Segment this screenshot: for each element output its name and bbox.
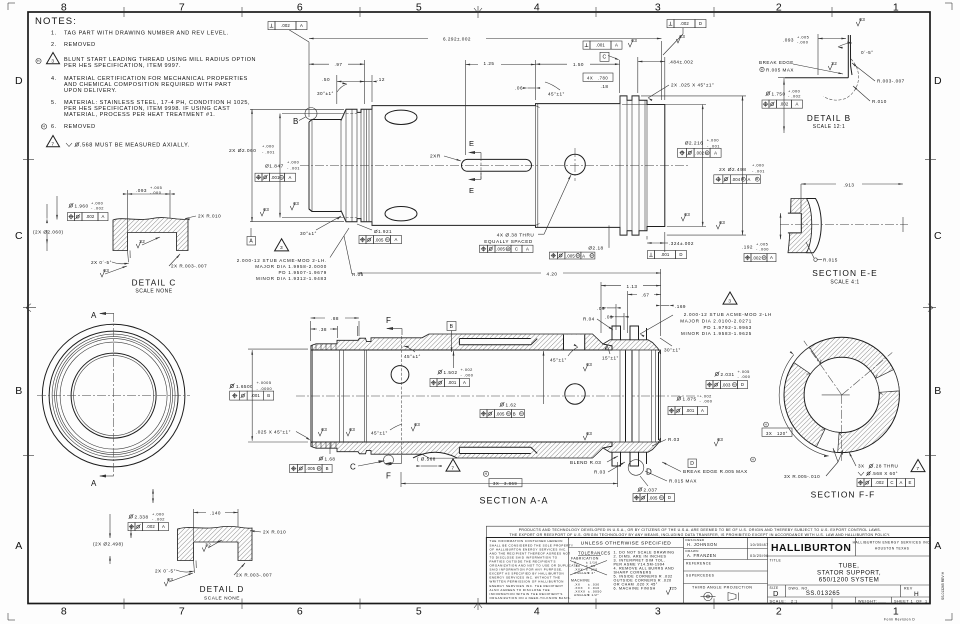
svg-text:.005: .005	[566, 253, 575, 258]
svg-text:STATOR SUPPORT,: STATOR SUPPORT,	[817, 570, 881, 577]
svg-text:.06: .06	[515, 86, 523, 91]
dim .97	[364, 60, 366, 104]
svg-text:.780: .780	[598, 76, 608, 81]
fcf perp .002 D top right	[667, 20, 674, 28]
svg-text:.568 X 60°: .568 X 60°	[872, 471, 899, 476]
svg-text:1.62: 1.62	[506, 403, 517, 408]
section A-A bottom wall hatched	[311, 442, 612, 458]
dim .50	[336, 75, 338, 104]
svg-text:2: 2	[776, 606, 782, 618]
svg-text:.002: .002	[680, 21, 689, 26]
dim dia 1.68	[319, 456, 324, 461]
svg-text:C: C	[890, 480, 893, 485]
triangle 3 section	[723, 292, 737, 304]
svg-text:B: B	[15, 385, 23, 397]
svg-text:.12: .12	[377, 77, 385, 82]
detail B finish 32	[828, 63, 833, 71]
svg-text:A: A	[463, 380, 466, 385]
zone center marks	[474, 6, 482, 18]
dim .06	[528, 87, 536, 89]
section F-F hole wedges	[876, 370, 900, 393]
detail D vertical dims	[152, 489, 154, 503]
section F-F hatched ring	[784, 337, 899, 452]
svg-text:H: H	[485, 472, 488, 476]
size and drawing number row	[785, 585, 787, 597]
svg-text:+.000: +.000	[287, 160, 300, 165]
svg-text:32: 32	[139, 239, 145, 244]
svg-text:63: 63	[684, 212, 690, 217]
section A-A cut line	[113, 313, 115, 477]
svg-text:2.031: 2.031	[721, 372, 735, 377]
svg-text:SCALE 12:1: SCALE 12:1	[813, 124, 846, 130]
svg-text:H. JOHNSON: H. JOHNSON	[687, 542, 717, 547]
front view concentric circles	[42, 324, 185, 467]
svg-text:R.03: R.03	[668, 437, 680, 442]
svg-text:SECTION A-A: SECTION A-A	[479, 496, 548, 506]
section A-A right groove slot	[626, 351, 633, 442]
top view outline	[309, 96, 665, 235]
finish 63 section right	[583, 364, 588, 372]
dim dia 1.6500	[230, 384, 235, 389]
svg-text:TAG PART WITH DRAWING NUMBER A: TAG PART WITH DRAWING NUMBER AND REV LEV…	[64, 31, 229, 37]
svg-text:- .001: - .001	[287, 166, 300, 171]
svg-text:+.000: +.000	[262, 144, 275, 149]
detail C balloon on section	[384, 455, 394, 465]
svg-text:.484±.002: .484±.002	[669, 59, 694, 64]
svg-text:30°±1°: 30°±1°	[664, 348, 681, 353]
svg-text:R.015 MAX: R.015 MAX	[669, 479, 697, 484]
svg-text:1.: 1.	[51, 31, 57, 37]
svg-text:4X Ø.38 THRU: 4X Ø.38 THRU	[497, 232, 535, 237]
svg-text:7: 7	[179, 606, 185, 618]
svg-text:.192: .192	[742, 245, 753, 250]
svg-text:2.: 2.	[51, 42, 57, 48]
svg-text:SS.013265 REV H: SS.013265 REV H	[941, 571, 945, 600]
dim .38	[337, 326, 339, 338]
svg-text:Ø1.921: Ø1.921	[374, 229, 392, 234]
dim 6.292 overall	[308, 42, 310, 117]
dim 1.13	[601, 285, 661, 287]
svg-text:63: 63	[103, 268, 109, 273]
svg-text:+.000: +.000	[707, 138, 720, 143]
svg-text:(2X Ø2.498): (2X Ø2.498)	[93, 542, 124, 547]
top view groove/ring verticals right	[619, 96, 621, 235]
svg-text:HOUSTON TEXAS: HOUSTON TEXAS	[875, 547, 910, 551]
svg-text:D: D	[690, 461, 694, 467]
section A-A cross hole upper	[391, 366, 409, 384]
datum B flag top	[447, 322, 456, 331]
section E-E hatched body	[788, 199, 812, 253]
svg-text:3X: 3X	[766, 431, 772, 436]
svg-text:10/05/87: 10/05/87	[750, 543, 769, 547]
svg-text:UNLESS OTHERWISE SPECIFIED: UNLESS OTHERWISE SPECIFIED	[581, 541, 672, 547]
note 6	[41, 124, 46, 129]
svg-text:125: 125	[669, 586, 677, 590]
svg-text:A: A	[526, 246, 529, 251]
svg-text:C: C	[934, 230, 942, 242]
svg-text:MINOR DIA 1.9583-1.9625: MINOR DIA 1.9583-1.9625	[681, 331, 752, 336]
svg-text:8: 8	[61, 606, 67, 618]
svg-text:2X R.010: 2X R.010	[263, 530, 286, 535]
detail C finish 32	[136, 241, 141, 249]
svg-text:D: D	[773, 589, 779, 598]
svg-text:MATERIAL, PROCESS PER HEAT TRE: MATERIAL, PROCESS PER HEAT TREATMENT #1.	[64, 112, 215, 118]
svg-text:3: 3	[280, 245, 283, 251]
svg-text:F: F	[386, 316, 391, 325]
triangle 7 F-F	[911, 460, 925, 472]
section A-A centerline	[296, 395, 700, 397]
svg-text:HALLIBURTON ENERGY SERVICES IN: HALLIBURTON ENERGY SERVICES INC.	[853, 541, 932, 545]
svg-text:.005: .005	[649, 495, 658, 500]
svg-text:.005: .005	[375, 237, 384, 242]
front view centerlines	[37, 395, 190, 397]
svg-text:WEIGHT:: WEIGHT:	[858, 599, 877, 603]
svg-text:.169: .169	[675, 304, 686, 309]
svg-text:1.875: 1.875	[683, 397, 697, 402]
svg-text:A: A	[15, 540, 23, 552]
svg-text:63: 63	[349, 427, 355, 432]
title block legal band	[486, 526, 930, 537]
dim .324	[647, 242, 665, 244]
section A-A top wall port window	[564, 335, 585, 350]
dim 1.50	[536, 63, 620, 65]
svg-text:1: 1	[893, 2, 899, 14]
svg-text:R.010: R.010	[872, 99, 887, 104]
svg-text:BREAK EDGE R.005 MAX: BREAK EDGE R.005 MAX	[683, 469, 748, 474]
svg-text:ORGANIZATION ON A NEED-TO-KNOW: ORGANIZATION ON A NEED-TO-KNOW BASIS.	[490, 596, 572, 600]
svg-text:5.: 5.	[51, 100, 57, 106]
svg-text:.003: .003	[722, 382, 731, 387]
svg-text:.001: .001	[596, 43, 605, 48]
detail C dim dia 1.960	[69, 203, 74, 208]
finish 63 bottom right	[583, 433, 588, 441]
svg-text:M: M	[318, 467, 321, 471]
svg-text:A: A	[796, 102, 799, 107]
svg-text:H: H	[765, 423, 768, 427]
svg-text:M: M	[590, 254, 593, 258]
svg-text:1.68: 1.68	[325, 457, 336, 462]
svg-text:2X 0´-5°: 2X 0´-5°	[91, 260, 112, 265]
svg-text:( Ø.568: ( Ø.568	[417, 457, 436, 462]
svg-text:PER HES SPECIFICATION, ITEM 99: PER HES SPECIFICATION, ITEM 9997.	[64, 63, 181, 69]
top view ring lines left	[366, 109, 368, 221]
svg-text:.913: .913	[844, 182, 855, 187]
svg-text:THIRD ANGLE PROJECTION: THIRD ANGLE PROJECTION	[692, 586, 752, 590]
datum A flag	[247, 237, 256, 246]
svg-text:A: A	[900, 480, 903, 485]
svg-text:M: M	[576, 254, 579, 258]
section E-E keyway notch	[788, 213, 801, 233]
section A-A internal step lines	[339, 350, 341, 442]
svg-text:4: 4	[534, 606, 540, 618]
svg-text:63: 63	[679, 34, 685, 39]
svg-text:- .000: - .000	[700, 399, 713, 404]
svg-text:.093: .093	[783, 38, 794, 43]
svg-text:THE EXPORT OR REEXPORT OF U.S.: THE EXPORT OR REEXPORT OF U.S. ORIGIN TE…	[509, 533, 890, 537]
svg-text:2X .025 X 45°±1°: 2X .025 X 45°±1°	[671, 83, 714, 88]
dim 1.25	[465, 60, 467, 155]
svg-text:3: 3	[655, 2, 661, 14]
svg-text:6. MACHINE FINISH: 6. MACHINE FINISH	[614, 587, 656, 591]
svg-text:D: D	[679, 252, 682, 257]
svg-text:REMOVED: REMOVED	[64, 124, 96, 130]
svg-text:E: E	[469, 186, 475, 195]
svg-text:3: 3	[728, 299, 731, 305]
svg-text:UPON DELIVERY.: UPON DELIVERY.	[64, 88, 117, 94]
svg-text:PD 1.9792-1.9963: PD 1.9792-1.9963	[703, 325, 752, 330]
svg-text:2.000-12 STUB ACME-MOD 2-LH: 2.000-12 STUB ACME-MOD 2-LH	[684, 312, 772, 317]
svg-text:PRODUCTS AND TECHNOLOGY DEVELO: PRODUCTS AND TECHNOLOGY DEVELOPED IN U.S…	[519, 528, 882, 532]
svg-text:- .000: - .000	[756, 247, 769, 252]
dim .18	[598, 87, 611, 89]
svg-text:.005: .005	[496, 411, 505, 416]
top view thread section lines	[340, 121, 342, 211]
svg-text:.18: .18	[601, 84, 609, 89]
svg-text:Ø2.18: Ø2.18	[588, 246, 603, 251]
svg-text:Ø2.216: Ø2.216	[685, 141, 704, 147]
svg-text:0´-5°: 0´-5°	[861, 50, 874, 55]
circle H right	[751, 457, 756, 462]
dim 2X dia 2.498	[641, 95, 746, 97]
svg-text:B: B	[326, 466, 329, 471]
detail D finish 32	[202, 544, 207, 552]
dim 4X .780 boxed	[583, 73, 613, 81]
svg-text:650/1200 SYSTEM: 650/1200 SYSTEM	[819, 577, 879, 584]
section F-F spoke centerlines	[842, 352, 893, 394]
svg-text:REFERENCE: REFERENCE	[686, 562, 712, 566]
svg-text:120°: 120°	[777, 431, 788, 436]
svg-text:HALLIBURTON: HALLIBURTON	[771, 543, 851, 554]
svg-text:TUBE,: TUBE,	[839, 563, 860, 570]
section F-F inner circle	[804, 357, 879, 432]
svg-text:4: 4	[534, 2, 540, 14]
svg-text:SHEET 1: SHEET 1	[894, 599, 913, 603]
svg-text:.005: .005	[306, 466, 315, 471]
svg-text:± 1/2°: ± 1/2°	[588, 593, 599, 597]
svg-text:.025 X 45°±1°: .025 X 45°±1°	[256, 430, 291, 435]
note 3 flag	[36, 58, 41, 63]
detail D finish 63	[164, 579, 169, 587]
svg-text:.004: .004	[732, 177, 741, 182]
detail B dim arrows vertical	[783, 78, 785, 133]
svg-text:SCALE NONE: SCALE NONE	[135, 289, 172, 295]
svg-text:SCALE:: SCALE:	[770, 599, 787, 603]
svg-text:E: E	[909, 480, 912, 485]
title block outer box	[486, 538, 930, 604]
svg-text:2:1: 2:1	[791, 599, 798, 603]
signature rows	[684, 548, 768, 550]
dim dia 2.216	[622, 104, 706, 106]
svg-text:45°±1°: 45°±1°	[404, 354, 421, 359]
svg-text:TOLERANCES: TOLERANCES	[578, 551, 611, 556]
svg-text:.002: .002	[146, 524, 155, 529]
svg-text:45°±1°: 45°±1°	[371, 431, 388, 436]
detail B blade	[848, 35, 852, 78]
dim lines left of part	[250, 108, 344, 110]
svg-text:30°±1°: 30°±1°	[300, 231, 317, 236]
svg-text:A: A	[102, 214, 105, 219]
detail D hatched shape	[178, 526, 253, 560]
svg-text:SECTION F-F: SECTION F-F	[811, 490, 876, 500]
section A-A bottom wall groove window	[459, 447, 531, 453]
svg-text:M: M	[280, 175, 283, 179]
section E-E dim .913	[800, 184, 802, 212]
section A-A bottom spotface dip	[413, 452, 457, 458]
svg-text:SECTION E-E: SECTION E-E	[812, 268, 878, 278]
svg-text:1.13: 1.13	[627, 284, 638, 289]
svg-text:NOTES:: NOTES:	[35, 16, 77, 27]
svg-text:5: 5	[416, 2, 422, 14]
svg-text:1.50: 1.50	[573, 62, 584, 67]
dim .484	[638, 61, 665, 63]
svg-text:A: A	[934, 540, 942, 552]
svg-text:- .002: - .002	[788, 94, 801, 99]
top view centerline	[300, 165, 690, 167]
svg-text:R.005 MAX: R.005 MAX	[766, 68, 794, 73]
svg-text:DETAIL D: DETAIL D	[200, 585, 245, 594]
svg-text:.67: .67	[642, 293, 650, 298]
section E-E centerline	[780, 224, 908, 226]
dim .88	[310, 321, 312, 341]
detail C hatched shape	[113, 218, 188, 251]
svg-text:5: 5	[416, 606, 422, 618]
top view oval hole bottom	[385, 207, 417, 221]
svg-text:1.6500: 1.6500	[236, 384, 253, 389]
svg-text:A: A	[770, 255, 773, 260]
svg-text:F: F	[386, 472, 391, 481]
svg-text:4X: 4X	[587, 76, 593, 81]
svg-text:OF: OF	[916, 599, 922, 603]
svg-text:-.000: -.000	[150, 190, 162, 195]
svg-text:.002: .002	[752, 255, 761, 260]
svg-text:H: H	[752, 458, 755, 462]
finish 63 marks bottom left	[318, 429, 323, 437]
svg-text:.88: .88	[331, 316, 339, 321]
section A-A thread lines left end	[315, 344, 317, 350]
svg-text:3X R.005-.010: 3X R.005-.010	[784, 474, 820, 479]
detail B balloon	[305, 108, 317, 120]
svg-text:D: D	[699, 21, 702, 26]
svg-text:6.292±.002: 6.292±.002	[443, 37, 471, 42]
svg-text:63: 63	[263, 207, 269, 212]
svg-text:M: M	[756, 177, 759, 181]
dim dia 1.875	[677, 396, 682, 401]
dim dia 1.502	[438, 370, 443, 375]
svg-text:- .000: - .000	[738, 374, 751, 379]
svg-text:63: 63	[167, 577, 173, 582]
dim dia 2.031	[715, 372, 720, 377]
svg-text:M: M	[706, 151, 709, 155]
detail B surface line	[785, 77, 849, 79]
svg-text:4.20: 4.20	[547, 271, 558, 276]
svg-text:M: M	[660, 496, 663, 500]
svg-text:2X R.010: 2X R.010	[198, 214, 221, 219]
svg-text:- .001: - .001	[752, 168, 765, 173]
svg-text:DWG. NO.: DWG. NO.	[789, 587, 810, 591]
section F-F 3X 120 box	[764, 422, 769, 427]
dim 3X 3.869	[483, 471, 488, 476]
svg-text:B: B	[450, 324, 454, 330]
detail D taper lines	[194, 561, 195, 574]
svg-text:A: A	[289, 175, 292, 180]
svg-text:.002: .002	[875, 480, 884, 485]
svg-text:REV: REV	[904, 587, 913, 591]
svg-text:1.502: 1.502	[444, 370, 458, 375]
svg-text:- .0000: - .0000	[257, 386, 273, 391]
svg-text:63: 63	[586, 431, 592, 436]
svg-text:MAJOR DIA 2.0100-2.0271: MAJOR DIA 2.0100-2.0271	[680, 318, 752, 323]
svg-text:M: M	[742, 177, 745, 181]
svg-text:A: A	[162, 524, 165, 529]
svg-text:B: B	[513, 411, 516, 416]
svg-text:6: 6	[297, 606, 303, 618]
svg-text:7: 7	[451, 466, 454, 472]
svg-text:EQUALLY SPACED: EQUALLY SPACED	[484, 239, 533, 244]
top view cross hole	[565, 154, 586, 175]
svg-text:A: A	[395, 237, 398, 242]
top view keyway slot	[462, 159, 532, 171]
finish 63 marks top	[628, 40, 633, 48]
zone ticks top and bottom	[123, 7, 125, 17]
detail B dashed arc	[824, 59, 859, 100]
svg-text:2X Ø2.498: 2X Ø2.498	[719, 167, 746, 173]
detail C taper lines	[128, 251, 129, 263]
svg-text:C: C	[350, 463, 356, 472]
svg-text:MAJOR DIA 1.9958-2.0000: MAJOR DIA 1.9958-2.0000	[255, 264, 327, 269]
svg-text:2.000-12 STUB ACME-MOD 2-LH.: 2.000-12 STUB ACME-MOD 2-LH.	[237, 258, 327, 263]
detail D dim .140	[193, 509, 195, 541]
detail D dim dia 2.338	[129, 514, 134, 519]
svg-text:BLEND R.03: BLEND R.03	[570, 460, 601, 465]
svg-text:C: C	[602, 55, 606, 61]
svg-text:E: E	[469, 139, 475, 148]
svg-text:.002: .002	[281, 23, 290, 28]
svg-text:1.750: 1.750	[772, 92, 786, 97]
fcf perp .001 A with datum C	[583, 41, 590, 49]
svg-text:63: 63	[719, 220, 725, 225]
section E-E dim .192	[780, 213, 782, 239]
dim .12	[365, 81, 373, 83]
paper corner marks	[8, 2, 15, 4]
svg-text:+.0005: +.0005	[257, 380, 272, 385]
svg-text:Ø1.847: Ø1.847	[265, 164, 284, 170]
fcf perp .001 D bottom	[648, 251, 655, 259]
svg-text:63: 63	[321, 427, 327, 432]
svg-text:- .000: - .000	[461, 373, 474, 378]
svg-text:03/25/96: 03/25/96	[750, 554, 769, 558]
dim arrows 1.6500	[248, 348, 308, 350]
svg-text:- .002: - .002	[152, 517, 165, 522]
svg-text:.140: .140	[210, 511, 221, 516]
svg-text:15°±1°: 15°±1°	[602, 356, 619, 361]
section A-A bore chamfers	[422, 334, 429, 338]
dim dia 2.037	[638, 487, 643, 492]
detail C finish 63	[100, 270, 105, 278]
svg-text:63: 63	[586, 362, 592, 367]
svg-text:R.04: R.04	[583, 317, 595, 322]
dim .67	[628, 294, 661, 296]
svg-text:(2X Ø2.060): (2X Ø2.060)	[33, 230, 64, 235]
svg-text:2XR: 2XR	[430, 154, 441, 160]
triangle 3 thread note	[275, 239, 289, 251]
svg-text:.568 MUST BE MEASURED AXIALLY.: .568 MUST BE MEASURED AXIALLY.	[80, 143, 190, 149]
svg-text:A: A	[91, 311, 97, 320]
svg-text:SS.013265: SS.013265	[806, 591, 840, 597]
svg-text:2X Ø2.060: 2X Ø2.060	[229, 148, 256, 154]
svg-text:-.000: -.000	[797, 40, 809, 45]
svg-text:2: 2	[776, 2, 782, 14]
svg-text:B: B	[293, 117, 299, 126]
